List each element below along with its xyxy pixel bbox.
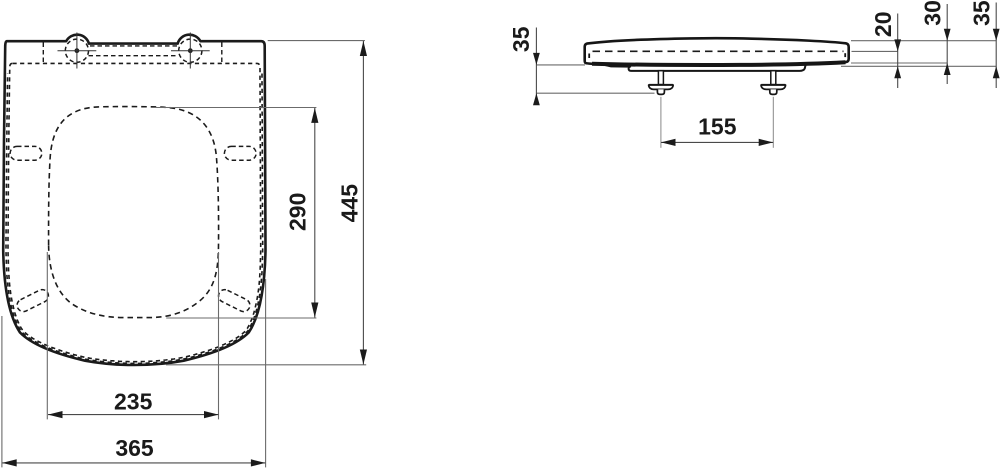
bolt right nut <box>770 89 777 94</box>
dimension 445 extension line bottom <box>166 364 366 366</box>
hinge circle right <box>179 39 202 62</box>
side view mounting plate <box>629 65 806 71</box>
dimension 445 line <box>362 41 364 365</box>
side view lens body <box>585 38 849 65</box>
dimension 290 extension line bottom <box>166 317 316 319</box>
dimension 365 line <box>2 462 265 464</box>
dimension 290 arrow down <box>311 303 318 318</box>
seat inner dashed contour zipper line <box>6 73 263 364</box>
hinge circle left <box>65 39 88 62</box>
svg-text:445: 445 <box>336 184 362 223</box>
svg-text:155: 155 <box>698 113 737 139</box>
bolt left nut <box>657 89 664 94</box>
hinge plate dashed line right <box>221 43 223 64</box>
side view lens centerline dashed <box>593 50 844 52</box>
dimension 20 arrow down <box>894 39 901 51</box>
dimension 20 arrow up <box>894 66 901 78</box>
bolt right stem <box>771 71 776 85</box>
bolt left washer <box>649 85 673 89</box>
side extension line lens bottom <box>851 62 947 64</box>
seat opening dashed contour <box>49 107 219 318</box>
hinge bar dashed line lower <box>89 55 179 57</box>
dimension 235 line <box>48 414 219 416</box>
svg-text:30: 30 <box>920 0 946 26</box>
bolt left stem <box>658 71 663 85</box>
bolt left centerline <box>660 97 662 148</box>
bumper lower left <box>15 287 51 313</box>
side extension line plate bottom <box>841 65 996 67</box>
dimension 290 extension line top <box>151 107 316 109</box>
dimension 235 arrow right <box>204 411 219 418</box>
dimension 445 arrow down <box>360 350 367 365</box>
svg-text:365: 365 <box>115 435 154 461</box>
bumper lower right <box>216 287 252 313</box>
svg-text:290: 290 <box>285 193 311 231</box>
dimension 235 extension line left <box>46 252 48 419</box>
bumper upper right <box>224 146 256 160</box>
dimension 35 right arrow down <box>993 29 1000 41</box>
hinge center dot left <box>75 48 80 53</box>
side extension line seat top <box>851 40 996 42</box>
dimension 445 arrow up <box>360 41 367 56</box>
hinge crosshair right <box>171 33 210 69</box>
dimension 35 left arrow down <box>533 53 540 65</box>
dimension 35 left extension line bottom <box>536 92 655 94</box>
svg-text:35: 35 <box>508 26 534 52</box>
dimension 30 arrow down <box>944 29 951 41</box>
dimension 365 extension line left <box>1 316 3 467</box>
dimension 30 arrow up <box>944 63 951 75</box>
hinge crosshair left <box>58 33 97 69</box>
side extension line centerline <box>852 50 898 52</box>
dimension 365 arrow right <box>251 459 266 466</box>
dimension 365 extension line right <box>265 279 267 467</box>
dimension 235 arrow left <box>48 411 63 418</box>
svg-text:35: 35 <box>969 0 995 26</box>
bolt left washer top bar <box>649 84 673 87</box>
hinge center dot right <box>188 48 193 53</box>
dimension 35 right arrow up <box>993 66 1000 78</box>
hinge bar dashed line upper <box>90 45 178 47</box>
dimension 155 line <box>661 141 773 143</box>
dimension 155 arrow left <box>661 139 676 146</box>
dimension 290 arrow up <box>311 108 318 123</box>
bolt right washer top bar <box>761 84 785 87</box>
dimension 365 arrow left <box>2 459 17 466</box>
seat inner dashed contour <box>8 63 261 361</box>
bumper upper left <box>10 146 42 160</box>
side view lens centerline end tick <box>844 53 846 57</box>
svg-text:20: 20 <box>870 12 896 38</box>
dimension 20 line <box>897 14 899 89</box>
svg-text:235: 235 <box>114 389 153 415</box>
hinge plate dashed line left <box>42 43 44 64</box>
seat outer contour (top view) <box>3 35 265 365</box>
bolt right washer <box>761 85 785 89</box>
dimension 30 line <box>946 4 948 84</box>
dimension 35 left extension line top <box>536 64 585 66</box>
side view bottom step <box>604 65 629 67</box>
dimension 290 line <box>314 108 316 318</box>
dimension 35 left line <box>535 28 537 104</box>
dimension 155 arrow right <box>759 139 774 146</box>
dimension 35 right line <box>995 3 997 89</box>
dimension 235 extension line right <box>218 252 220 419</box>
side view bottom dark band <box>592 62 846 65</box>
dimension 35 left arrow up <box>533 93 540 105</box>
side view lens centerline start tick <box>588 54 590 59</box>
dimension 445 extension line top <box>268 40 365 42</box>
bolt right centerline <box>772 97 774 148</box>
